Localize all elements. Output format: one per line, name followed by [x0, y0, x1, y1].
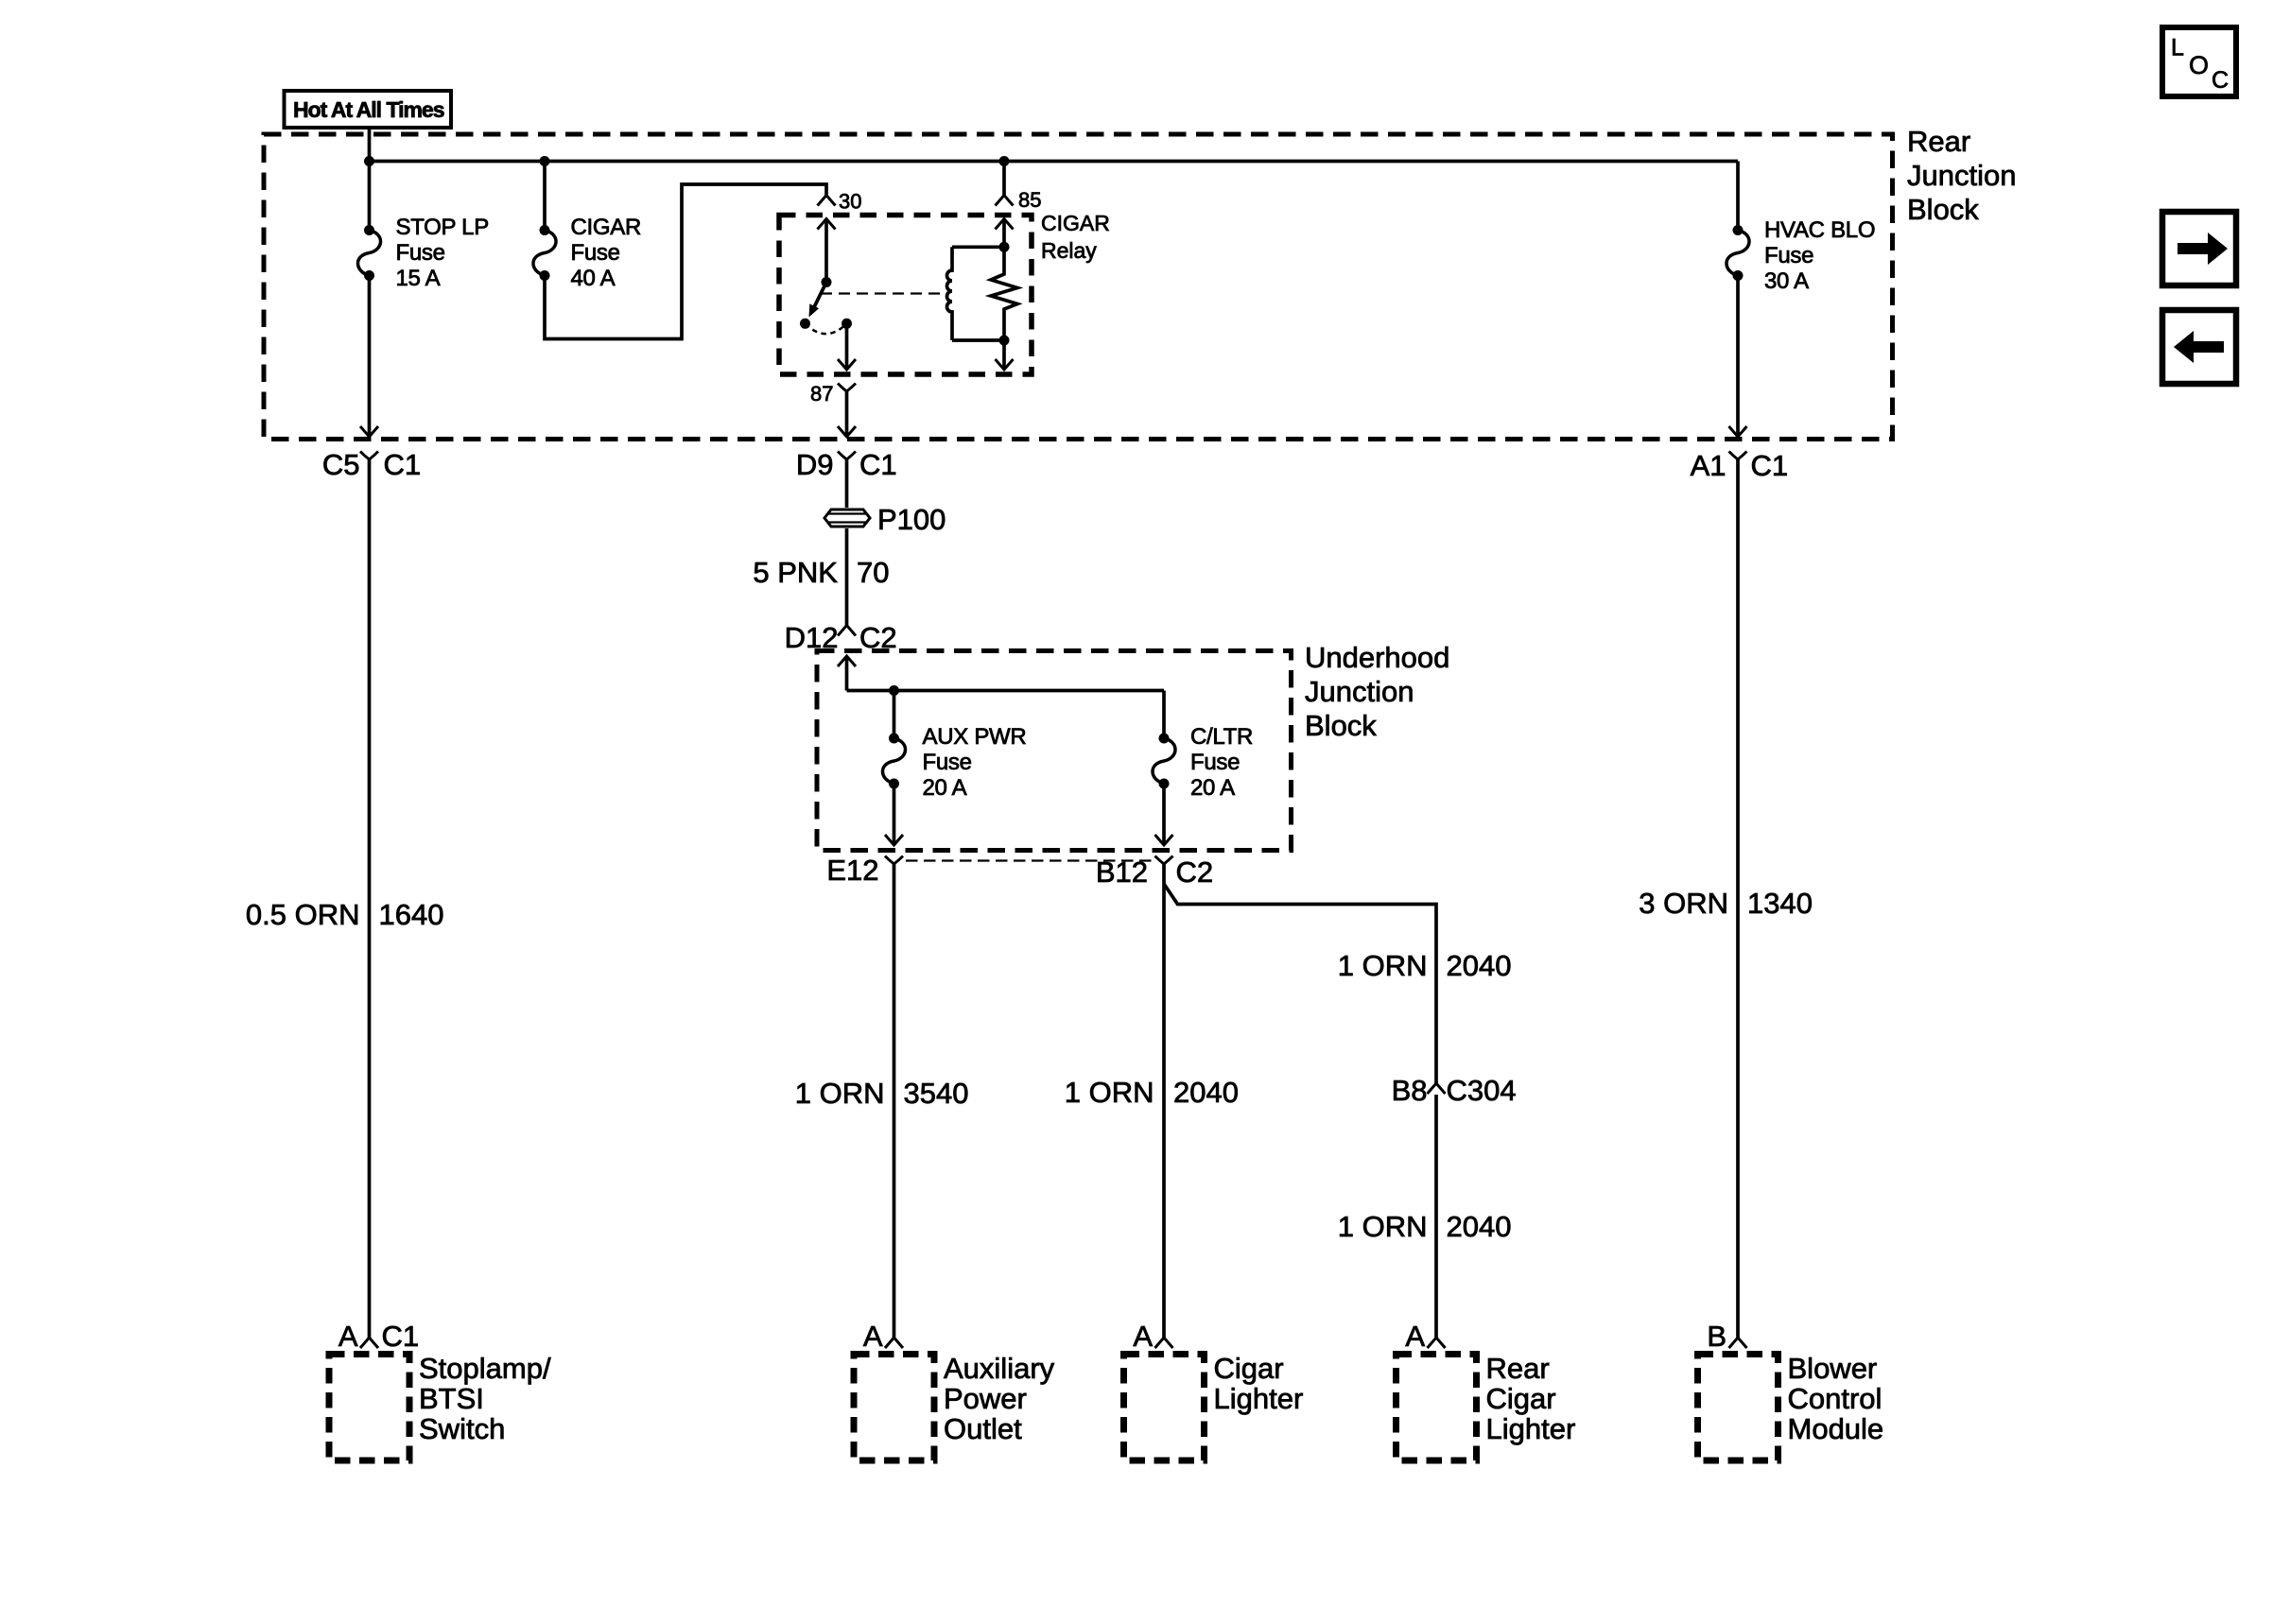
svg-text:Fuse: Fuse [571, 240, 620, 266]
svg-text:Fuse: Fuse [1764, 243, 1813, 268]
svg-text:Auxiliary: Auxiliary [944, 1352, 1055, 1385]
svg-text:1 ORN: 1 ORN [1338, 1210, 1428, 1243]
svg-text:Underhood: Underhood [1305, 641, 1449, 674]
svg-text:B12: B12 [1096, 855, 1148, 889]
svg-text:Module: Module [1788, 1412, 1884, 1445]
svg-text:Cigar: Cigar [1214, 1352, 1284, 1385]
svg-text:Junction: Junction [1305, 675, 1414, 708]
svg-text:Relay: Relay [1041, 238, 1097, 263]
svg-text:30 A: 30 A [1764, 268, 1809, 294]
svg-text:Power: Power [944, 1382, 1027, 1415]
svg-text:C1: C1 [382, 1320, 420, 1353]
svg-text:30: 30 [839, 190, 861, 214]
svg-text:A: A [1405, 1320, 1425, 1353]
svg-text:A: A [338, 1320, 358, 1353]
svg-text:20 A: 20 A [923, 775, 967, 801]
svg-text:A1: A1 [1691, 449, 1726, 482]
svg-text:3 ORN: 3 ORN [1639, 887, 1728, 920]
svg-text:Cigar: Cigar [1486, 1382, 1556, 1415]
svg-text:C1: C1 [384, 448, 422, 481]
svg-text:40 A: 40 A [571, 266, 616, 291]
svg-text:15 A: 15 A [396, 266, 441, 291]
svg-text:1340: 1340 [1747, 887, 1813, 920]
svg-text:C: C [2212, 67, 2229, 94]
svg-text:Fuse: Fuse [1190, 750, 1240, 775]
svg-text:C5: C5 [322, 448, 360, 481]
svg-text:B: B [1707, 1320, 1726, 1353]
svg-text:C1: C1 [859, 448, 897, 481]
svg-text:AUX PWR: AUX PWR [923, 724, 1027, 750]
svg-text:Stoplamp/: Stoplamp/ [419, 1352, 551, 1385]
svg-text:D9: D9 [796, 448, 834, 481]
svg-text:1 ORN: 1 ORN [1065, 1076, 1154, 1109]
svg-text:E12: E12 [826, 854, 878, 887]
svg-text:BTSI: BTSI [419, 1382, 484, 1415]
svg-text:3540: 3540 [904, 1077, 969, 1110]
svg-text:CIGAR: CIGAR [571, 215, 642, 240]
svg-text:STOP LP: STOP LP [396, 215, 489, 240]
svg-text:85: 85 [1018, 188, 1041, 212]
svg-text:Block: Block [1907, 193, 1979, 226]
svg-text:Junction: Junction [1907, 159, 2016, 192]
svg-text:L: L [2171, 35, 2184, 61]
svg-text:2040: 2040 [1447, 1210, 1512, 1243]
svg-text:87: 87 [810, 382, 833, 406]
svg-text:Block: Block [1305, 709, 1377, 742]
svg-text:1 ORN: 1 ORN [795, 1077, 885, 1110]
svg-text:20 A: 20 A [1190, 775, 1235, 801]
svg-text:C304: C304 [1447, 1074, 1517, 1107]
svg-text:HVAC BLO: HVAC BLO [1764, 217, 1875, 243]
svg-text:B8: B8 [1392, 1074, 1428, 1107]
svg-text:1640: 1640 [379, 898, 444, 931]
svg-text:Rear: Rear [1907, 125, 1970, 158]
svg-text:Hot At All Times: Hot At All Times [293, 97, 444, 122]
svg-text:0.5 ORN: 0.5 ORN [246, 898, 360, 931]
svg-text:Fuse: Fuse [396, 240, 445, 266]
svg-text:1 ORN: 1 ORN [1338, 949, 1428, 982]
svg-text:O: O [2189, 51, 2209, 79]
svg-text:2040: 2040 [1173, 1076, 1239, 1109]
svg-text:Lighter: Lighter [1214, 1382, 1304, 1415]
svg-text:70: 70 [857, 556, 889, 589]
svg-text:C2: C2 [1176, 855, 1214, 889]
svg-text:2040: 2040 [1447, 949, 1512, 982]
svg-text:Rear: Rear [1486, 1352, 1550, 1385]
svg-text:Fuse: Fuse [923, 750, 972, 775]
svg-text:5 PNK: 5 PNK [753, 556, 838, 589]
svg-text:C/LTR: C/LTR [1190, 724, 1253, 750]
svg-text:A: A [1133, 1320, 1153, 1353]
svg-text:Control: Control [1788, 1382, 1883, 1415]
svg-text:Blower: Blower [1788, 1352, 1878, 1385]
svg-text:CIGAR: CIGAR [1041, 211, 1110, 235]
svg-text:P100: P100 [877, 503, 946, 536]
svg-text:Lighter: Lighter [1486, 1412, 1576, 1445]
svg-text:A: A [863, 1320, 883, 1353]
svg-text:C1: C1 [1751, 449, 1789, 482]
svg-text:Switch: Switch [419, 1412, 505, 1445]
svg-text:Outlet: Outlet [944, 1412, 1022, 1445]
